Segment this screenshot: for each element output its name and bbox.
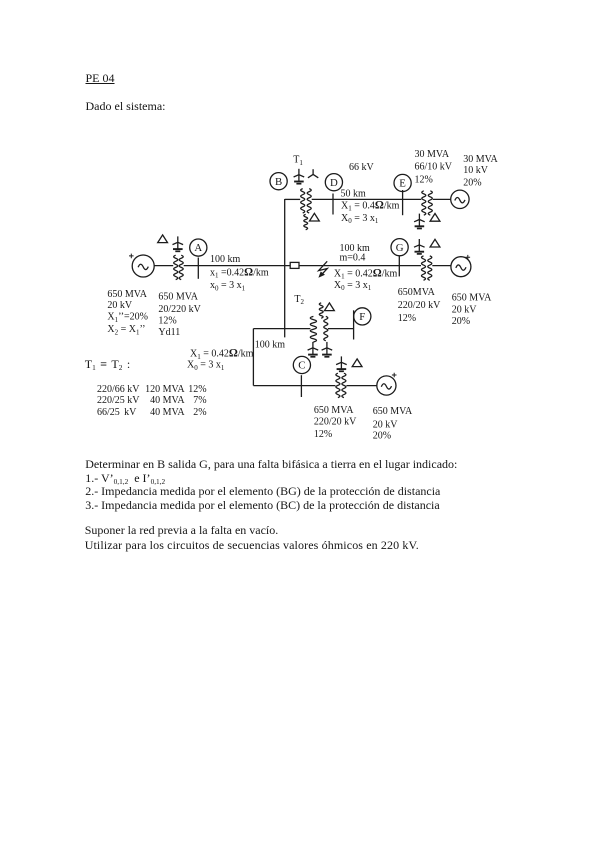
- svg-text:30 MVA: 30 MVA: [415, 149, 450, 160]
- svg-text:X0 = 3 x1: X0 = 3 x1: [341, 213, 379, 225]
- svg-text:66/10 kV: 66/10 kV: [415, 161, 453, 172]
- svg-text:20%: 20%: [373, 431, 391, 442]
- svg-text:T1: T1: [293, 155, 303, 167]
- svg-text:220/20 kV: 220/20 kV: [398, 300, 441, 311]
- svg-text:12%: 12%: [314, 429, 332, 440]
- svg-text:Yd11: Yd11: [158, 327, 180, 338]
- svg-text:10 kV: 10 kV: [463, 165, 489, 176]
- svg-text:X1’’=20%: X1’’=20%: [107, 312, 148, 324]
- svg-text:650MVA: 650MVA: [398, 287, 436, 298]
- svg-text:D: D: [330, 177, 338, 189]
- svg-text:A: A: [194, 242, 202, 254]
- svg-text:X1 = 0.4Ω/km: X1 = 0.4Ω/km: [341, 199, 400, 212]
- svg-text:F: F: [359, 311, 365, 323]
- svg-text:20%: 20%: [463, 177, 481, 188]
- svg-text:X1 = 0.42Ω/km: X1 = 0.42Ω/km: [334, 267, 398, 280]
- svg-text:20 kV: 20 kV: [452, 305, 478, 316]
- svg-text:20%: 20%: [452, 316, 470, 327]
- svg-text:20 kV: 20 kV: [107, 300, 132, 311]
- svg-text:G: G: [396, 242, 404, 254]
- svg-text:30 MVA: 30 MVA: [463, 154, 498, 165]
- svg-text:12%: 12%: [398, 313, 416, 324]
- svg-text:650 MVA: 650 MVA: [107, 289, 147, 300]
- svg-text:650 MVA: 650 MVA: [452, 293, 492, 304]
- svg-text:66 kV: 66 kV: [349, 162, 375, 173]
- svg-text:X0 = 3 x1: X0 = 3 x1: [334, 280, 372, 292]
- svg-text:12%: 12%: [415, 175, 433, 186]
- svg-text:T2: T2: [294, 294, 304, 306]
- svg-text:20/220 kV: 20/220 kV: [158, 304, 201, 315]
- svg-text:m=0.4: m=0.4: [340, 253, 366, 264]
- svg-text:50 km: 50 km: [341, 189, 367, 200]
- svg-text:650 MVA: 650 MVA: [373, 406, 413, 417]
- svg-text:100 km: 100 km: [210, 254, 241, 265]
- svg-text:12%: 12%: [158, 316, 176, 327]
- svg-text:650 MVA: 650 MVA: [158, 292, 198, 303]
- svg-text:x0 = 3 x1: x0 = 3 x1: [210, 280, 246, 292]
- svg-text:650 MVA: 650 MVA: [314, 405, 354, 416]
- svg-text:E: E: [399, 178, 406, 190]
- svg-text:20 kV: 20 kV: [373, 420, 399, 431]
- svg-text:220/20 kV: 220/20 kV: [314, 416, 357, 427]
- svg-text:B: B: [275, 176, 282, 188]
- svg-text:X0 = 3 x1: X0 = 3 x1: [187, 360, 225, 372]
- svg-text:C: C: [298, 360, 305, 372]
- svg-text:x1 =0.42Ω/km: x1 =0.42Ω/km: [210, 266, 269, 279]
- svg-text:100 km: 100 km: [255, 339, 285, 350]
- svg-text:X2 = X1’’: X2 = X1’’: [107, 324, 145, 336]
